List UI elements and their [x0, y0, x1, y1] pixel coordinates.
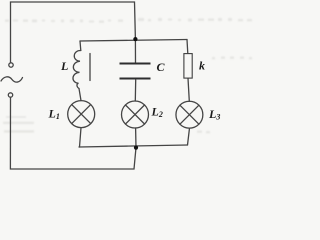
svg-text:C: C [157, 60, 166, 74]
svg-text:k: k [199, 59, 205, 73]
svg-text:L: L [60, 59, 68, 73]
